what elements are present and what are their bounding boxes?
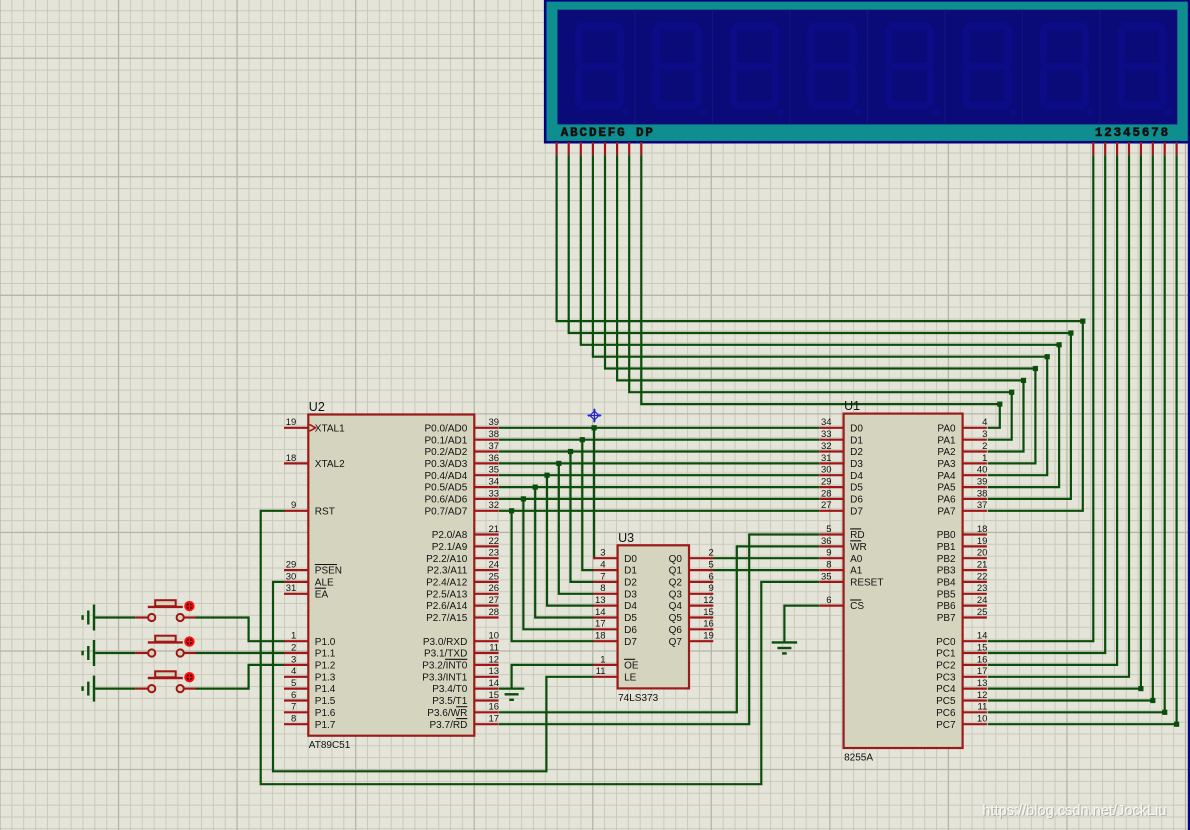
svg-text:D5: D5 [624,613,637,624]
wire display seg net 7 down to U1 PA0 [988,404,1000,428]
pin 36 WR [819,545,843,547]
svg-text:24: 24 [489,560,500,571]
svg-text:4: 4 [600,560,605,571]
display digit 8 segments [1119,22,1165,30]
svg-text:7: 7 [1151,126,1159,140]
svg-text:19: 19 [286,417,297,428]
svg-text:P0.7/AD7: P0.7/AD7 [424,506,467,517]
svg-text:WR: WR [850,542,867,553]
svg-text:74LS373: 74LS373 [618,693,658,704]
pin 25 PB7 [963,616,987,618]
display inner screen [558,10,1178,125]
wire display seg D horizontal [593,155,1047,356]
wire Q1 net U3.Q1 - U1.A1 [713,569,819,571]
svg-text:2: 2 [709,548,714,559]
wire AD7 tap to U3.D7 [512,511,594,641]
svg-text:P2.3/A11: P2.3/A11 [427,566,468,577]
junction AD5 [533,485,538,490]
junction seg net 2 [1057,342,1062,347]
svg-text:P0.6/AD6: P0.6/AD6 [424,495,467,506]
svg-text:PC0: PC0 [936,637,956,648]
wire AD3 bus U2.P0.3 - U1.D3 [499,462,819,464]
svg-text:38: 38 [489,429,500,440]
junction digit net 6 [1150,698,1155,703]
svg-text:F: F [608,126,616,140]
svg-text:XTAL2: XTAL2 [315,459,345,470]
svg-text:31: 31 [821,453,832,464]
svg-text:8255A: 8255A [844,753,873,764]
pin 22 P2.1/A9 [474,545,498,547]
svg-text:P2.7/A15: P2.7/A15 [426,613,468,624]
IC U1 8255A [844,414,963,748]
svg-text:AT89C51: AT89C51 [309,740,351,751]
wire display seg G horizontal [629,155,1012,392]
svg-text:30: 30 [821,465,832,476]
wire display digit 3 to U1 PC2 [988,155,1117,665]
svg-text:C: C [580,126,588,140]
junction seg net 5 [1021,378,1026,383]
display digit 5 segments [887,22,933,30]
svg-text:23: 23 [977,583,988,594]
pin 14 D5 [593,616,617,618]
pin 31 D3 [819,462,843,464]
svg-text:P3.6/WR: P3.6/WR [427,708,467,719]
svg-text:37: 37 [489,441,500,452]
svg-text:XTAL1: XTAL1 [315,423,345,434]
svg-text:PB4: PB4 [937,578,956,589]
svg-text:9: 9 [291,500,296,511]
svg-text:6: 6 [1142,126,1150,140]
svg-text:PB6: PB6 [937,601,956,612]
pin 6 Q2 [689,581,713,583]
IC U3 74LS373 [618,545,689,688]
svg-text:40: 40 [977,465,988,476]
svg-text:34: 34 [821,417,832,428]
svg-text:CS: CS [850,601,864,612]
wire CS net U1.CS to ground [784,606,819,642]
junction AD2 [568,449,573,454]
svg-text:RD: RD [850,530,864,541]
pin 30 ALE [284,581,308,583]
svg-text:1: 1 [982,453,987,464]
pin 4 D1 [593,569,617,571]
pin 21 P2.0/A8 [474,533,498,535]
svg-text:P1.2: P1.2 [315,661,336,672]
svg-text:3: 3 [291,654,296,665]
svg-text:PA0: PA0 [937,423,956,434]
wire OE net U3.OE down to ground [512,665,594,689]
wire display digit 4 to U1 PC3 [988,155,1129,677]
wire display seg B horizontal [569,155,1071,333]
svg-text:20: 20 [977,548,988,559]
svg-text:U2: U2 [309,400,325,414]
origin marker [590,411,599,420]
junction AD1 [580,437,585,442]
junction seg net 7 [997,402,1002,407]
svg-text:D5: D5 [850,483,863,494]
pin 20 PB2 [963,557,987,559]
wire SW3 to U2.P1.2 [196,665,285,689]
svg-text:1: 1 [600,654,605,665]
pin 27 D7 [819,510,843,512]
svg-text:33: 33 [489,488,500,499]
pin 6 CS [819,604,843,606]
svg-text:8: 8 [1161,126,1169,140]
svg-text:E: E [598,126,606,140]
svg-text:2: 2 [1104,126,1112,140]
pin 1 P1.0 [284,640,308,642]
svg-text:https://blog.csdn.net/JockLiu: https://blog.csdn.net/JockLiu [982,803,1166,819]
svg-text:RST: RST [315,506,335,517]
svg-text:8: 8 [826,560,831,571]
svg-text:D1: D1 [624,566,637,577]
wire AD7 bus U2.P0.7 - U1.D7 [499,510,819,512]
svg-text:B: B [570,126,578,140]
pin 12 Q4 [689,604,713,606]
pin 19 PB1 [963,545,987,547]
svg-text:8: 8 [600,583,605,594]
svg-text:8: 8 [291,714,296,725]
display digit 2 segments [654,22,700,30]
display DS1 7SEG-MPX8 outer box [545,0,1189,142]
wire AD2 tap to U3.D2 [571,452,594,582]
pin 8 A1 [819,569,843,571]
svg-text:P1.0: P1.0 [315,637,336,648]
svg-text:13: 13 [595,595,606,606]
svg-text:P2.5/A13: P2.5/A13 [426,589,468,600]
wire display seg DP horizontal [641,155,1000,404]
svg-text:D7: D7 [850,506,863,517]
svg-text:P0.2/AD2: P0.2/AD2 [424,447,467,458]
svg-text:D3: D3 [624,589,637,600]
pin 17 P3.7/RD [474,723,498,725]
pin 16 P3.6/WR [474,711,498,713]
svg-text:PA5: PA5 [937,483,956,494]
svg-text:5: 5 [1132,126,1140,140]
svg-text:D2: D2 [850,447,863,458]
wire display digit 6 to U1 PC5 [988,155,1153,700]
svg-text:P2.1/A9: P2.1/A9 [432,542,468,553]
svg-text:U1: U1 [844,399,860,413]
wire display seg A horizontal [557,155,1083,321]
svg-text:P1.1: P1.1 [315,649,336,660]
pin 8 D3 [593,593,617,595]
svg-text:P2.6/A14: P2.6/A14 [426,601,468,612]
pin 13 P3.3/INT1 [474,676,498,678]
svg-text:A0: A0 [850,554,863,565]
ground SW2 ground [93,640,95,666]
junction digit net 5 [1138,686,1143,691]
pin 33 P0.6/AD6 [474,498,498,500]
svg-text:1: 1 [291,631,296,642]
svg-text:5: 5 [826,524,831,535]
pin 12 PC5 [963,699,987,701]
svg-text:18: 18 [977,524,988,535]
svg-text:D: D [589,126,597,140]
wire display seg net 6 down to U1 PA1 [988,392,1012,440]
svg-text:PC1: PC1 [936,649,956,660]
svg-text:36: 36 [489,453,500,464]
svg-text:27: 27 [821,500,832,511]
pin 15 Q5 [689,616,713,618]
wire AD5 tap to U3.D5 [535,487,594,617]
svg-text:P1.3: P1.3 [315,672,336,683]
svg-text:P2.0/A8: P2.0/A8 [432,530,468,541]
pin 18 PB0 [963,533,987,535]
junction seg net 3 [1045,354,1050,359]
svg-text:P1.6: P1.6 [315,708,336,719]
svg-text:P0.3/AD3: P0.3/AD3 [424,459,467,470]
pin 2 PA2 [963,450,987,452]
svg-text:Q2: Q2 [669,578,683,589]
pin 13 D4 [593,604,617,606]
svg-text:16: 16 [489,702,500,713]
svg-text:25: 25 [489,571,500,582]
wire T0 net U2.P3.4 to ground bar [499,687,524,689]
pin 11 P3.1/TXD [474,652,498,654]
wire WR net U2.P3.6 - U1.WR [499,546,819,712]
svg-text:P0.4/AD4: P0.4/AD4 [424,471,467,482]
wire SW1 to U2.P1.0 [196,618,285,642]
pin 6 P1.5 [284,699,308,701]
svg-text:15: 15 [489,690,500,701]
svg-text:21: 21 [977,560,988,571]
wire RD net U2.P3.7 - U1.RD [499,535,819,725]
svg-text:14: 14 [489,678,500,689]
svg-text:35: 35 [489,465,500,476]
svg-text:14: 14 [977,631,988,642]
pin 7 D2 [593,581,617,583]
svg-text:PC7: PC7 [936,720,956,731]
wire display seg net 0 down to U1 PA7 [988,321,1083,511]
pin 13 PC4 [963,687,987,689]
pin 14 PC0 [963,640,987,642]
pin 40 PA4 [963,474,987,476]
wire SW2 left wire [95,652,135,654]
pin 2 Q0 [689,557,713,559]
svg-text:ALE: ALE [315,578,334,589]
svg-text:D4: D4 [850,471,863,482]
svg-text:34: 34 [489,477,500,488]
wire RST net U2.RST - U1.RESET [261,511,820,784]
pin 2 P1.1 [284,652,308,654]
svg-text:26: 26 [489,583,500,594]
svg-text:OE: OE [624,661,639,672]
svg-text:PB3: PB3 [937,566,956,577]
svg-text:18: 18 [286,453,297,464]
pin 30 D4 [819,474,843,476]
svg-text:13: 13 [489,666,500,677]
junction digit net 8 [1174,722,1179,727]
pin 28 D6 [819,498,843,500]
pin 39 PA5 [963,486,987,488]
pin 26 P2.5/A13 [474,593,498,595]
svg-text:17: 17 [977,666,988,677]
svg-text:D6: D6 [624,625,637,636]
svg-text:12: 12 [703,595,714,606]
svg-text:PB5: PB5 [937,589,956,600]
svg-text:21: 21 [489,524,500,535]
junction seg net 1 [1068,330,1073,335]
pin 23 PB5 [963,593,987,595]
svg-text:PB0: PB0 [937,530,956,541]
wire display seg net 1 down to U1 PA6 [988,333,1071,499]
svg-text:P1.5: P1.5 [315,696,336,707]
svg-text:3: 3 [600,548,605,559]
svg-text:PA4: PA4 [937,471,956,482]
display digit 4 segments [809,22,855,30]
wire SW3 left wire [95,687,135,689]
svg-text:15: 15 [977,642,988,653]
svg-text:13: 13 [977,678,988,689]
wire display seg net 5 down to U1 PA2 [988,380,1024,451]
svg-text:2: 2 [982,441,987,452]
pin 39 P0.0/AD0 [474,427,498,429]
svg-text:39: 39 [977,477,988,488]
wire display digit 8 to U1 PC7 [988,155,1177,724]
svg-text:22: 22 [977,571,988,582]
svg-text:P0.1/AD1: P0.1/AD1 [424,435,467,446]
wire AD4 tap to U3.D4 [547,475,594,605]
svg-text:31: 31 [286,583,297,594]
pin 14 P3.4/T0 [474,687,498,689]
ground at U1 CS [772,641,797,643]
wire display digit 7 to U1 PC6 [988,155,1165,712]
svg-text:P3.0/RXD: P3.0/RXD [423,637,467,648]
wire AD2 bus U2.P0.2 - U1.D2 [499,450,819,452]
svg-text:P3.4/T0: P3.4/T0 [432,684,467,695]
pin 31 EA [284,593,308,595]
pin 5 Q1 [689,569,713,571]
svg-text:2: 2 [291,642,296,653]
svg-text:P3.2/INT0: P3.2/INT0 [422,661,467,672]
wire AD5 bus U2.P0.5 - U1.D5 [499,486,819,488]
svg-text:PC6: PC6 [936,708,956,719]
pin 4 P1.3 [284,676,308,678]
svg-text:9: 9 [826,548,831,559]
pin 38 P0.1/AD1 [474,439,498,441]
svg-text:29: 29 [821,477,832,488]
display digit 1 segments [577,22,623,30]
pin 35 RESET [819,581,843,583]
svg-text:PC5: PC5 [936,696,956,707]
display digit pins 1-8 [1092,142,1094,155]
junction AD0 [592,425,597,430]
display digit 6 segments [964,22,1010,30]
svg-text:39: 39 [489,417,500,428]
pin 18 XTAL2 [284,462,308,464]
pin 8 P1.7 [284,723,308,725]
svg-text:PA2: PA2 [937,447,956,458]
svg-text:A1: A1 [850,566,863,577]
svg-text:5: 5 [709,560,714,571]
junction AD4 [544,473,549,478]
pin 16 Q6 [689,628,713,630]
svg-text:P: P [645,126,653,140]
pin 3 P1.2 [284,664,308,666]
svg-text:35: 35 [821,571,832,582]
svg-text:5: 5 [291,678,296,689]
pin 3 PA1 [963,439,987,441]
svg-text:3: 3 [1114,126,1122,140]
pin 4 PA0 [963,427,987,429]
pin 24 PB6 [963,604,987,606]
svg-text:LE: LE [624,672,637,683]
svg-text:RESET: RESET [850,578,883,589]
pin 28 P2.7/A15 [474,616,498,618]
wire AD6 bus U2.P0.6 - U1.D6 [499,498,819,500]
svg-text:D2: D2 [624,578,637,589]
svg-text:22: 22 [489,536,500,547]
svg-text:PB7: PB7 [937,613,956,624]
svg-text:P2.4/A12: P2.4/A12 [426,578,468,589]
svg-text:P3.3/INT1: P3.3/INT1 [422,672,467,683]
svg-text:PC4: PC4 [936,684,956,695]
svg-text:1: 1 [1095,126,1103,140]
wire display digit 5 to U1 PC4 [988,155,1141,688]
svg-text:28: 28 [821,488,832,499]
junction AD3 [556,461,561,466]
wire display seg net 4 down to U1 PA3 [988,369,1036,464]
wire display seg net 3 down to U1 PA4 [988,357,1047,476]
wire AD3 tap to U3.D3 [559,463,594,593]
svg-text:P0.5/AD5: P0.5/AD5 [424,483,467,494]
pin 34 P0.5/AD5 [474,486,498,488]
svg-text:PA7: PA7 [937,506,956,517]
svg-text:24: 24 [977,595,988,606]
svg-text:D3: D3 [850,459,863,470]
svg-text:4: 4 [982,417,987,428]
wire display seg E horizontal [605,155,1035,368]
svg-text:Q5: Q5 [669,613,683,624]
svg-text:P1.4: P1.4 [315,684,336,695]
ground at U3 OE / U2 T0 (top bar is the wire) [505,693,519,695]
pin 32 D2 [819,450,843,452]
svg-text:PA1: PA1 [937,435,956,446]
svg-text:4: 4 [291,666,296,677]
svg-text:15: 15 [703,607,714,618]
wire AD1 tap to U3.D1 [582,440,593,570]
wire ALE net U2.ALE - U3.LE [273,582,594,771]
wire SW2 to U2.P1.1 [196,652,285,654]
svg-text:9: 9 [709,583,714,594]
svg-text:10: 10 [489,631,500,642]
svg-text:7: 7 [600,571,605,582]
svg-text:17: 17 [489,714,500,725]
svg-text:P3.1/TXD: P3.1/TXD [424,649,467,660]
display segment pins A-DP [555,142,557,155]
ground SW3 ground [93,676,95,702]
svg-text:P3.5/T1: P3.5/T1 [432,696,467,707]
svg-text:D0: D0 [850,423,863,434]
pin 7 P1.6 [284,711,308,713]
svg-text:PB2: PB2 [937,554,956,565]
junction AD7 [509,508,514,513]
svg-text:PA6: PA6 [937,495,956,506]
svg-text:Q6: Q6 [669,625,683,636]
svg-text:P2.2/A10: P2.2/A10 [426,554,468,565]
sheet border [1188,0,1190,830]
svg-text:36: 36 [821,536,832,547]
svg-text:D6: D6 [850,495,863,506]
pin 29 PSEN [284,569,308,571]
svg-text:10: 10 [977,714,988,725]
svg-text:A: A [561,126,569,140]
wire display seg F horizontal [617,155,1023,380]
junction seg net 0 [1080,319,1085,324]
pin 1 OE [593,664,617,666]
pin 21 PB3 [963,569,987,571]
